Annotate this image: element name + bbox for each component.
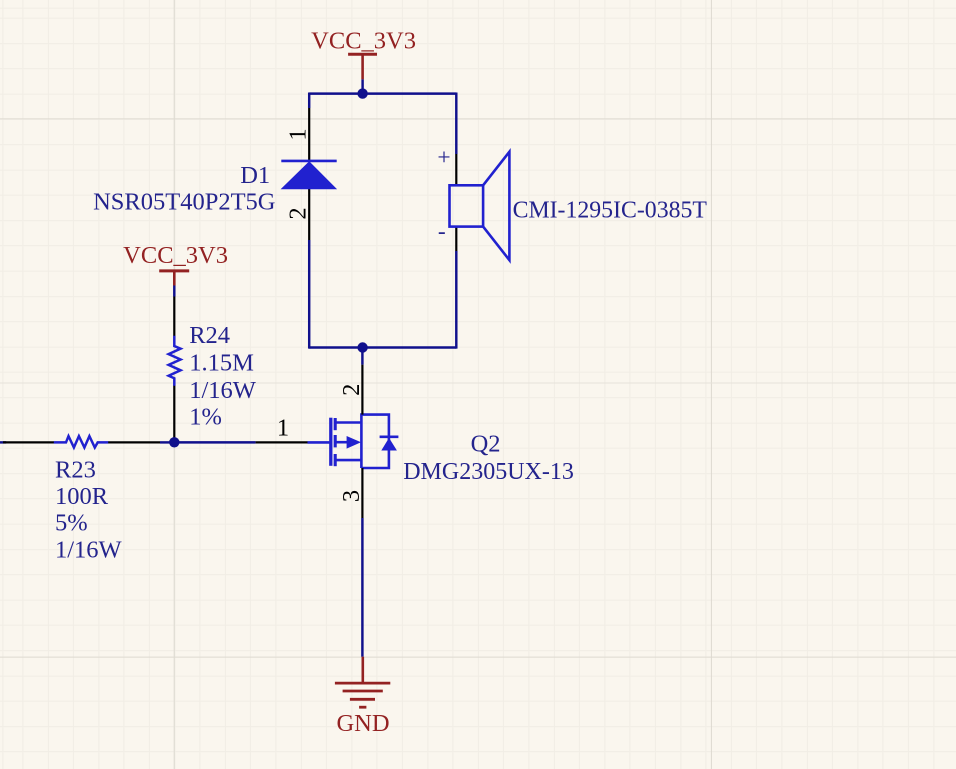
svg-text:1/16W: 1/16W (189, 377, 257, 404)
body diode triangle (381, 438, 397, 451)
anode triangle (282, 162, 336, 189)
pin 1 lead (173, 297, 175, 337)
svg-text:VCC_3V3: VCC_3V3 (123, 242, 228, 269)
pin 2 drain lead (361, 365, 363, 415)
channel dash top (334, 418, 337, 430)
junction: top rail (357, 88, 367, 98)
channel dash bottom (334, 454, 337, 466)
drain connect (335, 421, 361, 424)
cathode bar (281, 160, 336, 163)
svg-text:CMI-1295IC-0385T: CMI-1295IC-0385T (513, 197, 708, 223)
source connect (335, 459, 361, 462)
pin 2 lead (108, 441, 160, 443)
gate plate (329, 418, 332, 466)
wire: Q2 source to GND (361, 518, 363, 657)
svg-text:1%: 1% (189, 404, 222, 431)
wire: right branch lower (455, 251, 457, 349)
svg-text:NSR05T40P2T5G: NSR05T40P2T5G (93, 188, 275, 215)
pin 3 source lead (361, 468, 363, 518)
speaker cone (483, 152, 509, 260)
pin 1 lead (3, 441, 54, 443)
speaker CMI-1295IC-0385T (437, 145, 707, 261)
power port VCC_3V3 left (123, 242, 228, 286)
svg-text:Q2: Q2 (471, 430, 501, 457)
svg-text:2: 2 (338, 384, 365, 396)
svg-text:3: 3 (338, 490, 365, 502)
zigzag (54, 436, 108, 447)
svg-text:5%: 5% (55, 510, 88, 537)
resistor R24 (169, 297, 257, 443)
svg-text:1: 1 (277, 415, 289, 442)
svg-text:2: 2 (285, 207, 312, 219)
svg-text:D1: D1 (240, 162, 270, 189)
body loop (361, 415, 389, 468)
svg-text:1.15M: 1.15M (189, 349, 254, 376)
svg-text:VCC_3V3: VCC_3V3 (311, 27, 416, 54)
wire: junction to Q2 gate (174, 441, 255, 443)
pin 1 gate lead (256, 441, 308, 443)
wire: bottom junction to Q2 drain (361, 348, 363, 365)
svg-text:DMG2305UX-13: DMG2305UX-13 (403, 459, 574, 485)
resistor R23 (0, 436, 160, 563)
arrow line (335, 441, 348, 444)
svg-text:-: - (438, 219, 446, 245)
pin 2 lead (173, 386, 175, 443)
body diode bar (380, 435, 399, 438)
pin - lead (455, 227, 457, 251)
svg-text:R24: R24 (189, 322, 230, 349)
svg-text:R23: R23 (55, 456, 96, 483)
wire: right branch upper (455, 93, 457, 155)
transistor Q2 DMG2305UX-13 (256, 365, 574, 518)
zigzag (169, 336, 181, 386)
wire stub at left edge (0, 441, 6, 443)
pin 2 lead (308, 189, 310, 240)
diode D1 NSR05T40P2T5G (93, 108, 337, 240)
wire: left branch upper (308, 93, 310, 109)
wire: bottom rail (309, 346, 456, 348)
wire: R23 to junction (160, 441, 174, 443)
junction: gate node (169, 437, 179, 447)
svg-text:100R: 100R (55, 483, 109, 510)
svg-text:+: + (437, 145, 450, 171)
ground GND (335, 657, 390, 737)
pin + lead (455, 154, 457, 185)
svg-text:1/16W: 1/16W (55, 536, 123, 563)
speaker body (450, 185, 484, 226)
wire: left branch lower (308, 240, 310, 349)
gate lead (symbol) (308, 441, 331, 444)
wire: top rail (309, 92, 456, 94)
wire: VCC stub to top rail (361, 79, 363, 93)
junction: bottom rail (357, 342, 367, 352)
wire: VCC left stub (173, 286, 175, 297)
arrow head (347, 436, 361, 449)
pin 1 lead (308, 108, 310, 161)
power port VCC_3V3 top (311, 27, 416, 79)
channel dash middle (334, 435, 337, 447)
svg-text:GND: GND (336, 710, 389, 737)
svg-text:1: 1 (285, 128, 312, 140)
